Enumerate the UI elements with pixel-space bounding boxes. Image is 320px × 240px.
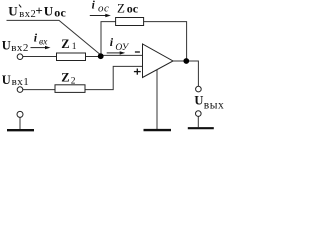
svg-text:ос: ос xyxy=(54,6,66,20)
svg-text:ОУ: ОУ xyxy=(115,43,129,53)
svg-text:+: + xyxy=(35,3,42,18)
svg-text:2: 2 xyxy=(71,76,76,86)
svg-text:вх: вх xyxy=(39,38,48,48)
svg-text:вх1: вх1 xyxy=(12,76,30,88)
svg-text:Z: Z xyxy=(117,1,125,16)
svg-text:ос: ос xyxy=(127,2,139,16)
svg-text:U: U xyxy=(194,93,203,107)
svg-text:U: U xyxy=(44,3,54,18)
svg-text:U: U xyxy=(2,39,11,53)
svg-text:1: 1 xyxy=(72,42,77,52)
svg-text:Z: Z xyxy=(61,71,69,85)
svg-text:вх2: вх2 xyxy=(11,42,29,54)
svg-text:вх2: вх2 xyxy=(19,9,36,20)
svg-text:ос: ос xyxy=(98,3,109,15)
svg-text:вых: вых xyxy=(204,99,224,111)
svg-text:U: U xyxy=(8,3,18,18)
svg-text:U: U xyxy=(2,73,11,87)
svg-text:Z: Z xyxy=(61,37,69,51)
